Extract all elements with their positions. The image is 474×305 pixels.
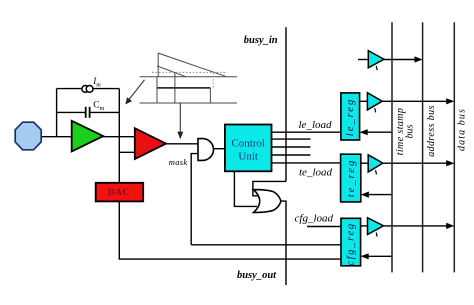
arrow bus1 into te_reg <box>361 192 392 198</box>
pulse left edge <box>156 77 158 103</box>
AND gate <box>198 139 213 161</box>
svg-text:cfg_reg: cfg_reg <box>346 222 357 266</box>
CU stub wire 3 <box>272 154 311 156</box>
arrow B3 output to data bus <box>384 223 455 229</box>
wire CU bottom to OR lower input <box>234 171 257 206</box>
current source I_m circles <box>82 86 93 93</box>
long vertical wire x=119 (feedback right / DAC column) <box>118 89 120 260</box>
waveform thin vertical <box>174 72 176 103</box>
svg-text:te_reg: te_reg <box>346 159 357 197</box>
svg-text:mask: mask <box>169 157 188 167</box>
CU stub wire 1 <box>272 138 311 140</box>
Control Unit box <box>225 125 272 172</box>
wire mask into AND lower input <box>191 154 198 245</box>
svg-text:Control: Control <box>231 137 265 149</box>
busy_in vertical wire <box>285 27 287 181</box>
waveform upper baseline <box>140 76 237 78</box>
svg-text:address bus: address bus <box>426 105 437 157</box>
wire green amp tip to red amp <box>102 136 136 138</box>
capacitor C_m plates <box>86 107 90 118</box>
wire cfg_load into cfg_reg <box>307 226 341 228</box>
arrow bus1 into cfg_reg <box>361 253 392 259</box>
wire octagon to green amp <box>40 136 72 138</box>
pulse top (thick) <box>157 87 210 89</box>
DAC box <box>96 183 144 202</box>
svg-text:data bus: data bus <box>456 108 467 151</box>
svg-text:busy_out: busy_out <box>237 270 277 281</box>
tri-state buffer B2 (te) <box>361 155 383 175</box>
comparator A2 (red triangle) <box>135 128 166 159</box>
svg-text:DAC: DAC <box>108 188 130 198</box>
svg-text:te_load: te_load <box>299 166 332 178</box>
wire OR output down (busy_out) <box>281 201 286 285</box>
arrow B0 output to bus 2 <box>384 56 423 62</box>
annotation arrow down to red amp output <box>177 103 183 139</box>
waveform dashed vertical <box>212 72 214 88</box>
wire AND output to Control Unit <box>214 148 226 150</box>
svg-text:le_load: le_load <box>299 119 332 131</box>
wire DAC to red amp lower input <box>119 151 141 153</box>
wire busy_in step into OR upper input <box>253 181 286 195</box>
OR gate <box>254 190 282 213</box>
wire feedback top with current source <box>57 88 120 90</box>
svg-text:bus: bus <box>405 124 416 138</box>
arrow bus1 into le_reg <box>360 129 392 135</box>
wire te_load (CU to te_reg) <box>272 162 341 164</box>
amplifier A1 (green triangle) <box>72 121 104 152</box>
tri-state buffer B1 (le) <box>360 93 383 113</box>
svg-text:le_reg: le_reg <box>345 98 356 136</box>
pulse right edge <box>209 88 211 103</box>
CU stub wire 2 <box>272 146 311 148</box>
waveform sketch: membrane potential and pulse <box>140 53 237 103</box>
le_reg register box <box>341 93 360 140</box>
tri-state buffer B0 (top) <box>358 51 384 71</box>
arrow B2 output to data bus <box>383 160 455 166</box>
annotation arrow to feedback node <box>125 80 144 105</box>
tri-state buffer B3 (cfg) <box>361 218 384 237</box>
waveform dotted threshold <box>152 71 226 73</box>
waveform lower baseline <box>140 102 237 104</box>
wire feedback left vertical <box>56 89 58 137</box>
svg-text:Unit: Unit <box>238 150 258 162</box>
bus line 2 (address bus) <box>422 22 424 272</box>
label time stamp bus <box>395 108 416 156</box>
bus line 1 (time stamp bus) <box>391 22 393 272</box>
arrow B1 output to data bus <box>382 98 454 104</box>
wire mask horizontal to cfg_reg <box>191 244 341 246</box>
bus line 3 (data bus) <box>453 22 455 272</box>
photoreceptor pad (octagon) <box>15 122 41 150</box>
wire red amp output to AND gate <box>166 143 199 145</box>
svg-text:cfg_load: cfg_load <box>295 212 334 224</box>
cfg_reg register box <box>341 218 361 265</box>
wire le_load (CU to le_reg) <box>272 131 341 133</box>
waveform rising edge <box>158 53 225 77</box>
long horizontal wire y=259 to cfg_reg <box>119 258 342 260</box>
svg-text:busy_in: busy_in <box>244 35 278 46</box>
wire capacitor branch <box>57 111 120 113</box>
waveform small slope <box>157 66 186 77</box>
te_reg register box <box>341 154 361 202</box>
